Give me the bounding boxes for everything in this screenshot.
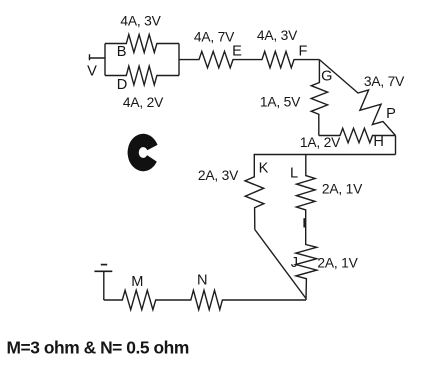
svg-text:D: D bbox=[117, 77, 128, 93]
svg-text:E: E bbox=[232, 44, 242, 60]
svg-text:2A, 3V: 2A, 3V bbox=[198, 168, 239, 183]
svg-text:F: F bbox=[299, 44, 308, 60]
svg-text:G: G bbox=[321, 69, 332, 85]
svg-text:4A, 3V: 4A, 3V bbox=[120, 13, 161, 28]
svg-text:3A, 7V: 3A, 7V bbox=[364, 74, 405, 89]
svg-text:K: K bbox=[259, 160, 269, 176]
svg-text:1A, 5V: 1A, 5V bbox=[260, 95, 301, 110]
svg-text:2A, 1V: 2A, 1V bbox=[322, 182, 363, 197]
svg-text:V: V bbox=[87, 64, 97, 80]
svg-text:M=3 ohm & N= 0.5 ohm: M=3 ohm & N= 0.5 ohm bbox=[7, 338, 189, 358]
svg-text:M: M bbox=[131, 274, 143, 290]
svg-text:2A, 1V: 2A, 1V bbox=[317, 255, 358, 270]
svg-text:L: L bbox=[290, 166, 298, 182]
svg-text:4A, 2V: 4A, 2V bbox=[123, 95, 164, 110]
svg-text:4A, 3V: 4A, 3V bbox=[257, 28, 298, 43]
svg-text:P: P bbox=[386, 106, 396, 122]
svg-text:B: B bbox=[117, 44, 127, 60]
svg-text:J: J bbox=[291, 255, 298, 271]
svg-text:H: H bbox=[373, 134, 384, 150]
svg-text:N: N bbox=[197, 272, 208, 288]
svg-text:4A, 7V: 4A, 7V bbox=[194, 30, 235, 45]
svg-text:1A, 2V: 1A, 2V bbox=[300, 135, 341, 150]
